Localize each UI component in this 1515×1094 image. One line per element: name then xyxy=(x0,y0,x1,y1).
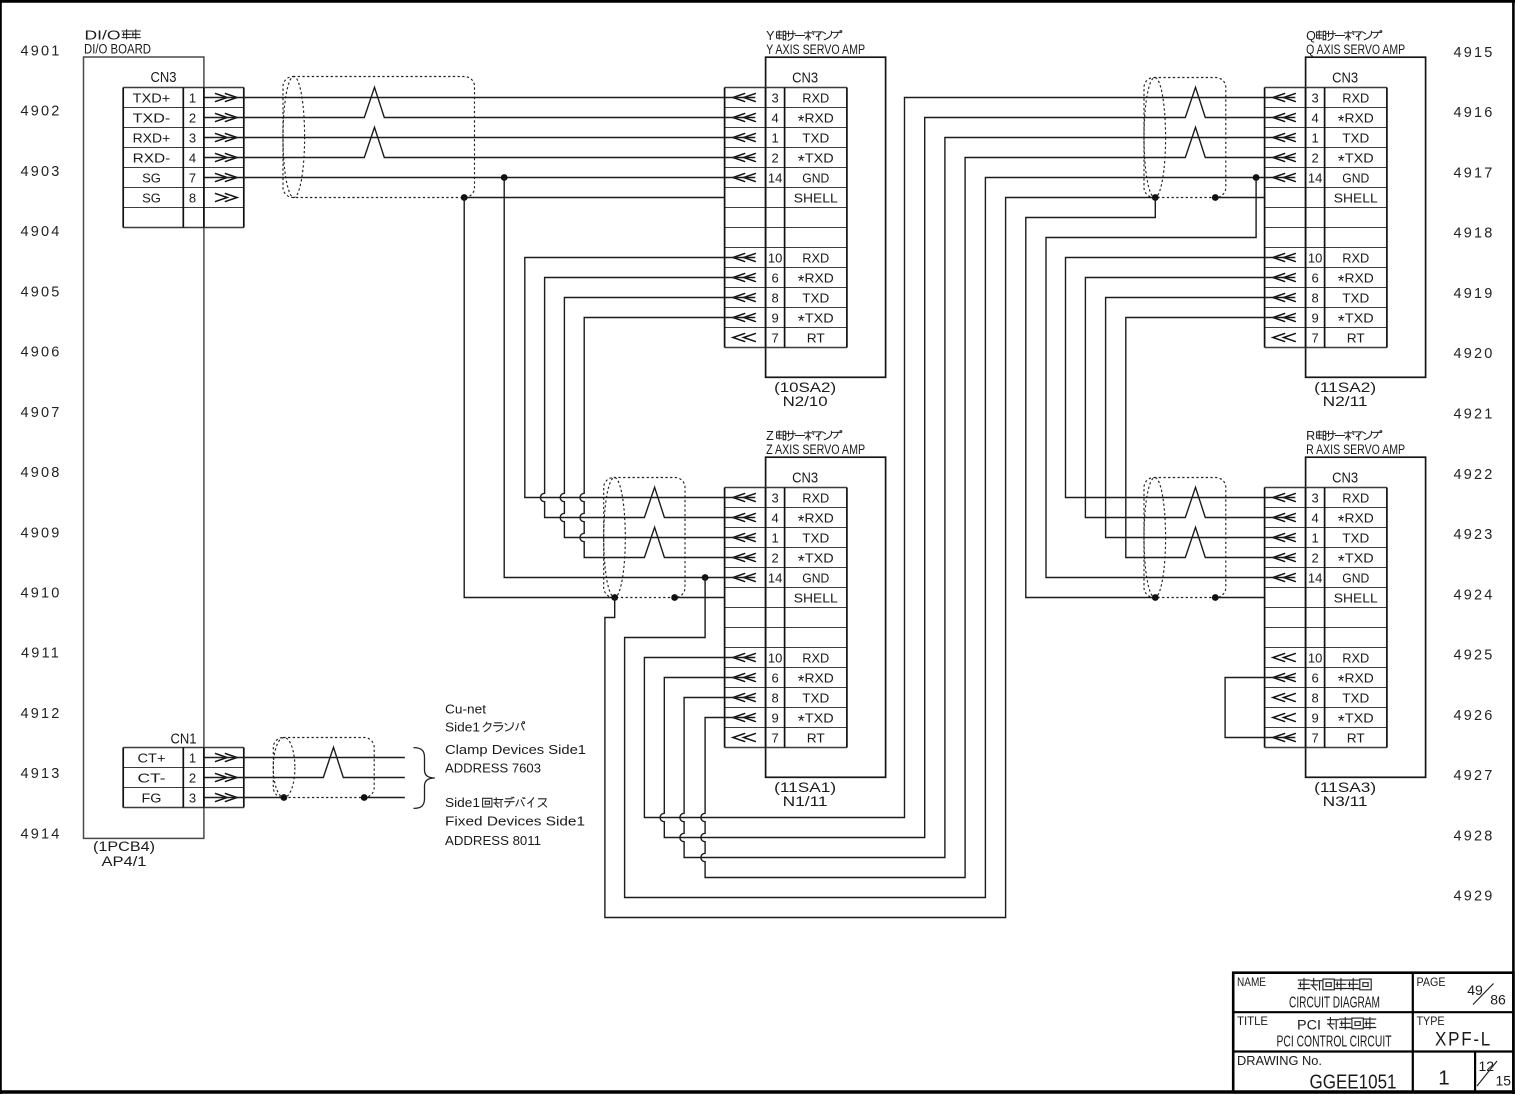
svg-text:TITLE: TITLE xyxy=(1237,1014,1268,1028)
wire FG from CN1-3 along shield xyxy=(204,797,284,799)
junction shield W2 left xyxy=(611,594,618,601)
wire FG right of shield xyxy=(364,797,405,799)
wire SHELL chain: W3 drain down and over to R CN3 SHELL xyxy=(1026,198,1156,598)
svg-text:2: 2 xyxy=(771,550,778,565)
svg-text:TXD: TXD xyxy=(802,290,829,305)
svg-text:TXD: TXD xyxy=(1342,290,1369,305)
svg-text:8: 8 xyxy=(189,190,196,205)
label 電気回路線図 xyxy=(1298,979,1310,981)
svg-text:4: 4 xyxy=(189,150,196,165)
svg-text:7: 7 xyxy=(1311,730,1318,745)
svg-text:CN1: CN1 xyxy=(171,732,197,748)
svg-text:DRAWING No.: DRAWING No. xyxy=(1237,1053,1322,1068)
svg-text:FG: FG xyxy=(142,790,162,805)
wire TXD chain: Y CN3-8 to Z CN3-1 (hops) xyxy=(560,298,755,538)
wire SHELL: shield W1 to Y CN3 SHELL xyxy=(464,197,724,199)
svg-text:9: 9 xyxy=(771,310,778,325)
svg-text:N2/11: N2/11 xyxy=(1323,394,1368,409)
junction shield W4 left xyxy=(1152,594,1159,601)
svg-text:(10SA2): (10SA2) xyxy=(774,380,836,395)
svg-text:N2/10: N2/10 xyxy=(783,394,828,409)
svg-text:SHELL: SHELL xyxy=(1334,190,1378,205)
junction shield W4 right xyxy=(1212,594,1219,601)
svg-text:4922: 4922 xyxy=(1453,467,1494,483)
svg-text:RXD: RXD xyxy=(802,650,829,665)
svg-text:PAGE: PAGE xyxy=(1417,975,1446,989)
svg-text:Cu-net: Cu-net xyxy=(445,701,486,716)
svg-text:4912: 4912 xyxy=(20,706,61,722)
svg-text:49: 49 xyxy=(1467,982,1483,998)
svg-text:7: 7 xyxy=(1311,330,1318,345)
svg-text:6: 6 xyxy=(771,670,778,685)
svg-text:TXD+: TXD+ xyxy=(133,90,171,105)
svg-text:RT: RT xyxy=(807,330,825,345)
svg-text:TXD: TXD xyxy=(802,530,829,545)
svg-text:TXD: TXD xyxy=(1342,530,1369,545)
svg-text:RXD+: RXD+ xyxy=(133,130,171,145)
svg-text:ADDRESS 7603: ADDRESS 7603 xyxy=(445,760,541,775)
junction shield W1 drain xyxy=(461,194,468,201)
svg-text:4919: 4919 xyxy=(1453,286,1494,302)
svg-text:RXD: RXD xyxy=(1342,90,1369,105)
svg-text:4: 4 xyxy=(1311,110,1318,125)
svg-text:6: 6 xyxy=(771,270,778,285)
svg-text:12: 12 xyxy=(1479,1058,1495,1074)
wire TXD chain: Z CN3-8 via bus to Q CN3-1 (hops) xyxy=(680,138,1295,858)
svg-text:4913: 4913 xyxy=(20,766,61,782)
svg-text:Z AXIS SERVO AMP: Z AXIS SERVO AMP xyxy=(766,442,865,457)
wire CT- from CN1-2 (twisted pair) xyxy=(204,747,405,777)
svg-text:TXD: TXD xyxy=(1342,690,1369,705)
junction FG shield left xyxy=(281,794,288,801)
svg-text:1: 1 xyxy=(771,130,778,145)
junction Z GND branch xyxy=(702,574,709,581)
svg-text:15: 15 xyxy=(1496,1073,1512,1089)
wire SHELL chain: W2 drain down to bus, up to Q CN3 SHELL xyxy=(605,198,1155,918)
shield W1 cable (DI/O to Y amp) xyxy=(283,77,475,198)
svg-text:CT+: CT+ xyxy=(138,750,166,765)
svg-text:TXD-: TXD- xyxy=(133,110,171,125)
wire GND chain: Z GND down to bus, up to Q CN3-14 xyxy=(625,178,1296,898)
svg-text:CN3: CN3 xyxy=(1332,71,1358,87)
wire SG branch down to Z CN3-14 GND xyxy=(504,178,755,578)
svg-text:4905: 4905 xyxy=(20,284,61,300)
junction Q GND branch xyxy=(1253,174,1260,181)
svg-text:6: 6 xyxy=(1311,670,1318,685)
svg-text:CIRCUIT DIAGRAM: CIRCUIT DIAGRAM xyxy=(1289,995,1380,1012)
junction shield W3 left xyxy=(1152,194,1159,201)
svg-text:8: 8 xyxy=(771,690,778,705)
svg-text:(1PCB4): (1PCB4) xyxy=(93,839,155,854)
svg-text:4901: 4901 xyxy=(20,44,61,60)
block U3 Z-axis servo amp outline xyxy=(766,457,886,777)
border frame xyxy=(0,0,1515,3)
wire RXD+ : DI/O CN3-3 to Y CN3-1 xyxy=(204,137,755,139)
svg-text:CN3: CN3 xyxy=(1332,471,1358,487)
svg-text:4910: 4910 xyxy=(20,586,61,602)
svg-text:10: 10 xyxy=(768,250,782,265)
svg-text:4902: 4902 xyxy=(20,104,61,120)
svg-text:2: 2 xyxy=(189,110,196,125)
svg-text:4917: 4917 xyxy=(1453,165,1494,181)
svg-text:RXD: RXD xyxy=(802,90,829,105)
svg-text:(11SA2): (11SA2) xyxy=(1314,380,1376,395)
svg-text:4903: 4903 xyxy=(20,164,61,180)
svg-text:2: 2 xyxy=(1311,150,1318,165)
svg-text:4: 4 xyxy=(1311,510,1318,525)
wire *TXD chain: Y CN3-9 to Z CN3-2 (hops, twisted pair) xyxy=(580,318,755,558)
wire SHELL stub into R CN3 xyxy=(1215,597,1264,599)
svg-text:GND: GND xyxy=(1342,570,1369,585)
svg-text:SHELL: SHELL xyxy=(794,190,838,205)
svg-text:TXD: TXD xyxy=(802,130,829,145)
svg-text:RXD: RXD xyxy=(1342,650,1369,665)
svg-text:Q AXIS SERVO AMP: Q AXIS SERVO AMP xyxy=(1306,42,1405,57)
svg-text:86: 86 xyxy=(1490,992,1506,1008)
svg-text:4908: 4908 xyxy=(20,465,61,481)
svg-text:NAME: NAME xyxy=(1237,975,1266,989)
svg-text:CT-: CT- xyxy=(138,770,166,785)
svg-text:10: 10 xyxy=(1308,650,1322,665)
svg-text:9: 9 xyxy=(771,710,778,725)
svg-text:RT: RT xyxy=(1347,330,1365,345)
wire *RXD chain: Q CN3-6 to R CN3-4 (twisted pair) xyxy=(1085,278,1295,518)
svg-text:4: 4 xyxy=(771,110,778,125)
svg-text:3: 3 xyxy=(1311,490,1318,505)
node row-number labels right 4915-4929 xyxy=(1453,45,1494,905)
junction FG shield right xyxy=(361,794,368,801)
svg-text:4906: 4906 xyxy=(20,345,61,361)
svg-text:14: 14 xyxy=(1308,570,1322,585)
wire SHELL: shield W2 to Z CN3 SHELL xyxy=(675,597,725,599)
junction SG branch xyxy=(501,174,508,181)
title block xyxy=(1233,973,1513,1093)
block U4 Q-axis servo amp outline xyxy=(1306,57,1426,377)
svg-text:Clamp Devices Side1: Clamp Devices Side1 xyxy=(445,742,586,757)
svg-text:4916: 4916 xyxy=(1453,105,1494,121)
svg-text:(11SA1): (11SA1) xyxy=(774,780,836,795)
svg-text:8: 8 xyxy=(1311,290,1318,305)
wire TXD- : DI/O CN3-2 to Y CN3-4 (twisted pair) xyxy=(204,87,755,117)
svg-text:TXD: TXD xyxy=(1342,130,1369,145)
wire *TXD chain: Q CN3-9 to R CN3-2 (twisted pair) xyxy=(1126,318,1296,558)
junction shield W3 right xyxy=(1212,194,1219,201)
svg-text:4: 4 xyxy=(771,510,778,525)
svg-text:(11SA3): (11SA3) xyxy=(1314,780,1376,795)
wire TXD chain: Q CN3-8 to R CN3-1 xyxy=(1106,298,1296,538)
svg-text:4928: 4928 xyxy=(1453,828,1494,844)
svg-text:4927: 4927 xyxy=(1453,768,1494,784)
svg-text:4923: 4923 xyxy=(1453,527,1494,543)
svg-text:RXD-: RXD- xyxy=(133,150,171,165)
svg-text:DI/O BOARD: DI/O BOARD xyxy=(84,41,151,56)
svg-text:N3/11: N3/11 xyxy=(1323,794,1368,809)
svg-text:N1/11: N1/11 xyxy=(783,794,828,809)
svg-text:4911: 4911 xyxy=(21,646,61,662)
svg-text:10: 10 xyxy=(1308,250,1322,265)
svg-text:AP4/1: AP4/1 xyxy=(102,854,147,869)
svg-text:14: 14 xyxy=(768,170,782,185)
wire CT+ from CN1-1 xyxy=(204,757,405,759)
wire GND chain: Q GND down and over to R CN3-14 xyxy=(1046,178,1295,578)
svg-text:CN3: CN3 xyxy=(151,70,177,86)
svg-text:6: 6 xyxy=(1311,270,1318,285)
svg-text:4920: 4920 xyxy=(1453,346,1494,362)
svg-text:4918: 4918 xyxy=(1453,226,1494,242)
svg-text:1: 1 xyxy=(1311,130,1318,145)
svg-text:3: 3 xyxy=(771,490,778,505)
svg-text:4929: 4929 xyxy=(1453,889,1494,905)
svg-text:8: 8 xyxy=(1311,690,1318,705)
wire SG : DI/O CN3-7 to Y CN3-14 GND xyxy=(204,177,755,179)
svg-text:RXD: RXD xyxy=(1342,250,1369,265)
svg-text:2: 2 xyxy=(189,770,196,785)
svg-text:GND: GND xyxy=(802,170,829,185)
svg-text:TXD: TXD xyxy=(802,690,829,705)
wire SHELL stub into Q CN3 xyxy=(1215,197,1264,199)
wire *TXD chain: Z CN3-9 via bus to Q CN3-2 (hops, twisted pair) xyxy=(701,127,1295,877)
svg-text:4926: 4926 xyxy=(1453,708,1494,724)
svg-text:4925: 4925 xyxy=(1453,648,1494,664)
svg-text:1: 1 xyxy=(1438,1067,1449,1090)
svg-text:4924: 4924 xyxy=(1453,587,1494,603)
svg-text:RXD: RXD xyxy=(802,250,829,265)
svg-text:R AXIS SERVO AMP: R AXIS SERVO AMP xyxy=(1306,442,1405,457)
svg-text:Side1: Side1 xyxy=(445,795,480,810)
svg-text:RXD: RXD xyxy=(1342,490,1369,505)
wire RXD chain: Y CN3-10 to Z CN3-3 xyxy=(525,258,756,498)
shield W3 cable (to Q amp) xyxy=(1144,78,1226,198)
svg-text:Fixed Devices Side1: Fixed Devices Side1 xyxy=(445,813,585,828)
svg-text:4921: 4921 xyxy=(1453,407,1494,423)
svg-text:SG: SG xyxy=(142,190,161,205)
svg-text:2: 2 xyxy=(771,150,778,165)
svg-text:10: 10 xyxy=(768,650,782,665)
svg-text:4915: 4915 xyxy=(1453,45,1494,61)
svg-text:SG: SG xyxy=(142,170,161,185)
svg-text:3: 3 xyxy=(189,790,196,805)
svg-text:XPF-L: XPF-L xyxy=(1435,1028,1492,1050)
svg-text:CN3: CN3 xyxy=(792,71,818,87)
block U1 DI/O BOARD outline (1PCB4) xyxy=(84,57,204,838)
svg-text:3: 3 xyxy=(189,130,196,145)
shield W2 cable (to Z amp) xyxy=(604,478,685,598)
svg-text:3: 3 xyxy=(1311,90,1318,105)
svg-text:4909: 4909 xyxy=(20,525,61,541)
svg-text:1: 1 xyxy=(771,530,778,545)
wire TXD+ : DI/O CN3-1 to Y CN3-3 xyxy=(204,97,755,99)
junction shield W2 right xyxy=(671,594,678,601)
svg-text:9: 9 xyxy=(1311,310,1318,325)
svg-text:PCI CONTROL CIRCUIT: PCI CONTROL CIRCUIT xyxy=(1277,1033,1392,1050)
svg-text:PCI: PCI xyxy=(1297,1017,1321,1032)
svg-text:RT: RT xyxy=(1347,730,1365,745)
node row-number labels left 4901-4914 xyxy=(20,44,61,843)
svg-text:7: 7 xyxy=(771,730,778,745)
svg-text:SHELL: SHELL xyxy=(1334,590,1378,605)
svg-text:7: 7 xyxy=(771,330,778,345)
svg-text:9: 9 xyxy=(1311,710,1318,725)
svg-text:RXD: RXD xyxy=(802,490,829,505)
svg-text:1: 1 xyxy=(189,750,196,765)
svg-text:4907: 4907 xyxy=(20,405,61,421)
shield W4 cable (to R amp) xyxy=(1144,478,1226,598)
svg-text:GGEE1051: GGEE1051 xyxy=(1310,1070,1397,1093)
wire RT jumper: R CN3-6 to R CN3-7 xyxy=(1225,678,1295,738)
svg-text:CN3: CN3 xyxy=(792,471,818,487)
wire RXD chain: Q CN3-10 to R CN3-3 xyxy=(1066,258,1296,498)
svg-text:Y AXIS SERVO AMP: Y AXIS SERVO AMP xyxy=(766,42,865,57)
svg-text:ADDRESS 8011: ADDRESS 8011 xyxy=(445,833,541,848)
svg-text:TYPE: TYPE xyxy=(1417,1014,1445,1028)
wire *RXD chain: Y CN3-6 to Z CN3-4 (hops, twisted pair) xyxy=(540,278,755,518)
shield W5 cable (CN1 Cu-net) xyxy=(273,738,374,798)
svg-text:1: 1 xyxy=(1311,530,1318,545)
svg-text:SHELL: SHELL xyxy=(794,590,838,605)
block U5 R-axis servo amp outline xyxy=(1306,457,1426,777)
svg-text:4914: 4914 xyxy=(20,826,61,842)
svg-text:4904: 4904 xyxy=(20,224,61,240)
svg-text:Side1: Side1 xyxy=(445,719,480,734)
brace grouping Cu-net wires xyxy=(414,748,435,809)
wire *RXD chain: Z CN3-6 via bus to Q CN3-4 (hops, twisted pair) xyxy=(660,87,1295,837)
svg-text:3: 3 xyxy=(771,90,778,105)
svg-text:GND: GND xyxy=(1342,170,1369,185)
wire RXD- : DI/O CN3-4 to Y CN3-2 (twisted pair) xyxy=(204,127,755,157)
svg-text:DI/O: DI/O xyxy=(85,28,121,42)
svg-text:14: 14 xyxy=(1308,170,1322,185)
svg-text:2: 2 xyxy=(1311,550,1318,565)
svg-text:14: 14 xyxy=(768,570,782,585)
svg-text:8: 8 xyxy=(771,290,778,305)
svg-text:1: 1 xyxy=(189,90,196,105)
svg-text:RT: RT xyxy=(807,730,825,745)
block U2 Y-axis servo amp outline xyxy=(766,57,886,377)
svg-text:GND: GND xyxy=(802,570,829,585)
svg-text:7: 7 xyxy=(189,170,196,185)
wire RXD chain: Z CN3-10 via bottom bus to Q CN3-3 xyxy=(644,98,1295,818)
wire shield drain down to shield W2 xyxy=(464,198,615,598)
